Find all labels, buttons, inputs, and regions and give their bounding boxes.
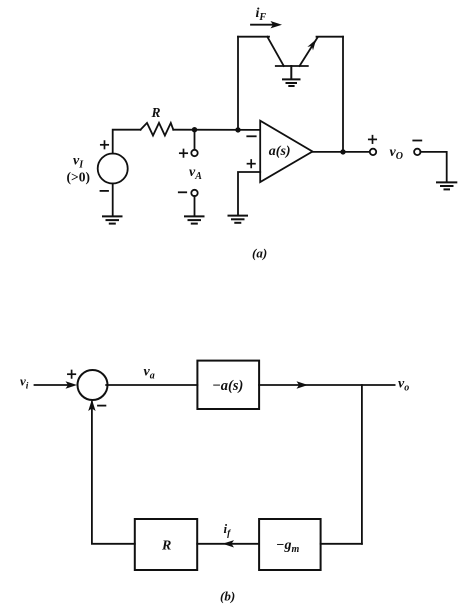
node vA top terminal (191, 150, 197, 156)
source vI circle (98, 154, 128, 184)
block -gm (259, 519, 321, 570)
label - (vA) (179, 191, 186, 193)
block -a(s) (197, 361, 259, 409)
resistor R (141, 123, 174, 136)
svg-text:R: R (151, 105, 161, 120)
svg-text:a(s): a(s) (269, 144, 291, 159)
op-amp U1 (260, 121, 312, 182)
label - (vO) (413, 140, 421, 142)
wire feedback top-left horizontal (238, 36, 269, 38)
label iF (256, 6, 267, 23)
wire right terminal to ground (420, 152, 446, 182)
svg-text:(b): (b) (220, 589, 235, 604)
label va (144, 365, 155, 382)
wire block output with arrow (259, 381, 395, 388)
wire summing to block (106, 384, 197, 386)
label R (151, 105, 161, 120)
wire vA stub (194, 130, 196, 150)
arrow iF (251, 21, 282, 28)
transistor Q1 collector lead (267, 37, 284, 66)
svg-text:−a(s): −a(s) (212, 378, 243, 394)
svg-text:(a): (a) (252, 246, 267, 261)
label + (summing) (68, 371, 75, 378)
node vA bottom terminal (191, 190, 197, 196)
node right terminal (414, 149, 420, 155)
label (a) (252, 246, 267, 261)
label vA (189, 165, 202, 182)
label (b) (220, 589, 235, 604)
label - (source) (101, 190, 109, 192)
node output terminal (370, 149, 376, 155)
label + (source) (101, 141, 108, 148)
wire output (313, 151, 371, 153)
label vo (398, 377, 409, 394)
ground (output) (437, 182, 456, 189)
block R (135, 519, 197, 570)
label - (inverting) (247, 135, 255, 137)
label -a(s) (212, 378, 243, 394)
label vO (390, 145, 403, 162)
wire resistor to op-amp (173, 129, 260, 131)
wire source top (113, 130, 141, 154)
svg-text:R: R (161, 539, 171, 554)
label - (summing) (98, 405, 105, 407)
wire feedback top-right horizontal (317, 36, 344, 38)
ground (transistor base) (283, 66, 300, 86)
svg-text:(>0): (>0) (67, 170, 90, 185)
wire feedback left vertical (237, 37, 239, 130)
ground (source) (103, 216, 122, 223)
arrow into summing junction (88, 400, 95, 412)
label a(s) (269, 144, 291, 159)
label -gm (276, 538, 299, 555)
label vi (20, 374, 29, 392)
wire branch to -gm (321, 543, 362, 545)
node junction dot (output) (340, 149, 345, 154)
node junction dot (vA tap) (192, 127, 197, 132)
node junction dot (inverting input) (235, 127, 240, 132)
label + (vA) (180, 150, 187, 157)
summing junction (78, 370, 108, 400)
wire right branch down (361, 385, 363, 544)
label R (block) (161, 539, 171, 554)
wire non-inverting input (238, 172, 260, 215)
wire -gm to R with arrow (197, 540, 259, 547)
transistor Q1 emitter lead with arrow (300, 38, 318, 67)
wire input with arrow (35, 381, 78, 388)
wire feedback right vertical (342, 37, 344, 152)
ground (non-inverting) (229, 216, 248, 223)
wire source bottom (112, 184, 114, 216)
label + (vO) (369, 136, 376, 143)
wire vA bottom stub (194, 196, 196, 216)
label if (224, 521, 232, 539)
transistor Q1 base bar (276, 65, 308, 67)
label vI (67, 154, 90, 185)
ground (vA) (185, 216, 204, 223)
label + (non-inverting) (248, 160, 255, 167)
wire R to summing junction (92, 402, 135, 544)
